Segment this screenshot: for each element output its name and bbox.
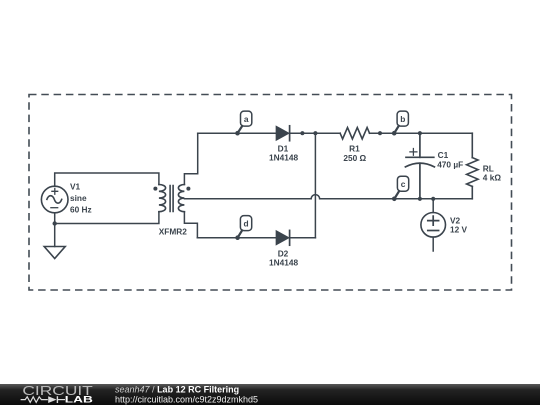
- footer bar: [0, 384, 540, 405]
- wire top rail left segment: [198, 132, 277, 134]
- svg-text:12 V: 12 V: [450, 225, 468, 235]
- svg-text:C1: C1: [438, 150, 449, 160]
- voltage source V2: [421, 199, 446, 251]
- junction dot at V1 bottom: [53, 221, 57, 225]
- wire D2 to vertical: [290, 237, 316, 239]
- node flag b: [392, 111, 408, 135]
- junction dot top rail 1: [300, 131, 304, 135]
- V2 label: [450, 216, 468, 235]
- primary winding: [159, 185, 166, 212]
- svg-text:250 Ω: 250 Ω: [343, 153, 366, 163]
- CircuitLab logo: [21, 384, 94, 404]
- svg-text:b: b: [400, 114, 405, 124]
- V1 label: [70, 182, 92, 215]
- D1 label: [269, 144, 298, 163]
- RL label: [483, 164, 502, 183]
- svg-text:1N4148: 1N4148: [269, 153, 298, 163]
- core: [170, 186, 173, 212]
- node flag d: [235, 216, 251, 240]
- svg-text:sine: sine: [70, 193, 87, 203]
- junction dot after R1: [378, 131, 382, 135]
- wire R1 to top-right corner: [370, 132, 473, 134]
- R1 label: [343, 144, 366, 164]
- wire D2 branch left: [197, 237, 276, 239]
- junction dot C1 top: [418, 131, 422, 135]
- wire V1 bottom to ground: [54, 213, 56, 247]
- ground: [44, 247, 65, 259]
- svg-text:c: c: [401, 179, 406, 189]
- svg-text:60 Hz: 60 Hz: [70, 204, 92, 214]
- capacitor C1: [405, 133, 434, 199]
- node flag a: [235, 111, 252, 135]
- svg-text:4 kΩ: 4 kΩ: [483, 172, 502, 182]
- C1 label: [437, 150, 463, 170]
- svg-text:http://circuitlab.com/c9t2z9dz: http://circuitlab.com/c9t2z9dzmkhd5: [115, 394, 258, 404]
- diode D2: [276, 230, 289, 245]
- transformer XFMR2: [153, 185, 190, 212]
- secondary winding: [178, 185, 184, 212]
- junction dot V2 top: [431, 197, 435, 201]
- junction dot top rail 2: [313, 131, 317, 135]
- svg-text:seanh47 / Lab 12 RC Filtering: seanh47 / Lab 12 RC Filtering: [115, 385, 239, 395]
- svg-text:LAB: LAB: [65, 393, 93, 404]
- wire D1 to R1: [290, 132, 341, 134]
- vertical wire D2 output to top rail: [314, 133, 316, 238]
- svg-text:470 µF: 470 µF: [437, 160, 463, 170]
- secondary polarity dot: [186, 187, 190, 191]
- junction dot C1 bottom: [418, 197, 422, 201]
- svg-text:R1: R1: [349, 144, 360, 154]
- svg-text:1N4148: 1N4148: [269, 258, 298, 268]
- wire secondary top to top rail: [184, 133, 197, 184]
- node flag c: [392, 176, 409, 201]
- primary polarity dot: [153, 187, 157, 191]
- D2 label: [269, 249, 298, 268]
- svg-text:XFMR2: XFMR2: [159, 227, 188, 237]
- wire bottom rail V1 to primary bottom: [55, 212, 159, 224]
- wire secondary bottom to D2 rail: [184, 212, 197, 238]
- svg-text:d: d: [244, 219, 249, 229]
- svg-text:V1: V1: [70, 182, 81, 192]
- resistor R1: [340, 128, 369, 140]
- wire V1 top to transformer primary top: [55, 173, 159, 186]
- voltage source V1: [41, 186, 68, 213]
- diode D1: [276, 126, 289, 141]
- svg-text:a: a: [244, 114, 249, 124]
- middle rail (center tap to RL bottom) with hop: [184, 195, 472, 199]
- resistor RL: [467, 133, 478, 199]
